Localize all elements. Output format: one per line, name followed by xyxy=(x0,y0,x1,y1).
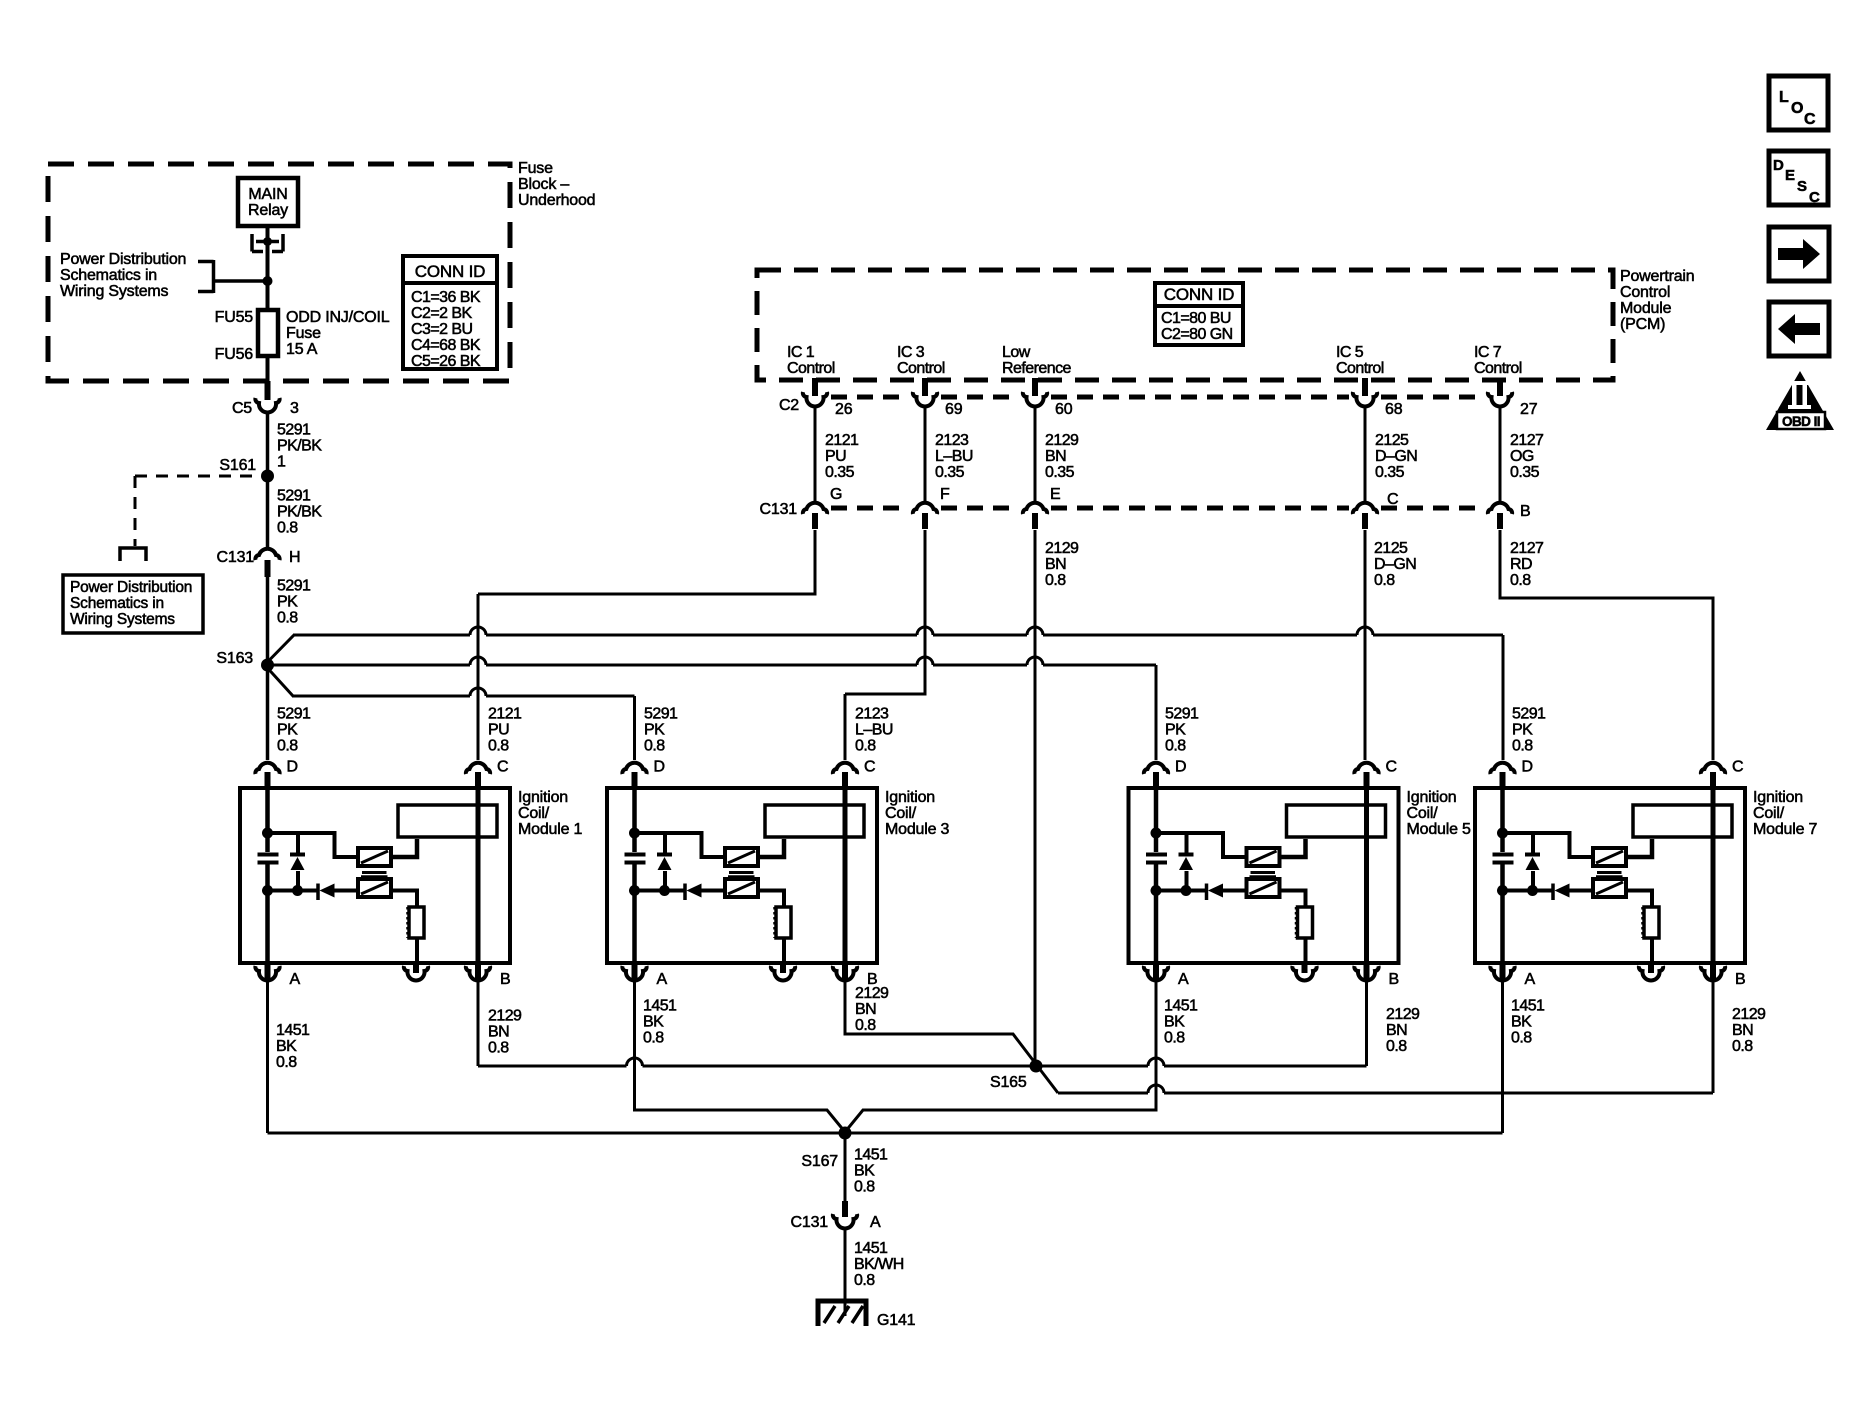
C131 label xyxy=(760,501,798,518)
wire 2129 BN 0.8 from module 3 pin B through S165 xyxy=(845,981,1058,1093)
connector C131 pin H xyxy=(255,549,279,560)
svg-text:CONN ID: CONN ID xyxy=(415,262,485,281)
pin C bar (module 1) xyxy=(475,772,481,788)
pin D connector (module 5) xyxy=(1144,763,1168,774)
OBD II icon xyxy=(1766,371,1834,430)
pin C bar (module 5) xyxy=(1364,772,1370,788)
PCM label line2 xyxy=(1620,284,1670,301)
label 1451 BK 0.8 module 5 A xyxy=(1164,998,1201,1047)
connector C131 pin C xyxy=(1353,503,1377,514)
C2 label xyxy=(779,397,799,414)
svg-text:Control: Control xyxy=(1620,284,1670,301)
connector C2 pin 27 xyxy=(1488,392,1512,406)
connector C131 pin B xyxy=(1488,503,1512,514)
next arrow icon xyxy=(1769,227,1829,281)
svg-text:S163: S163 xyxy=(216,650,253,667)
zener diode (module 5) xyxy=(1179,834,1194,889)
wire S161 to C131 H xyxy=(266,476,270,547)
wire 2129 BN 0.8 from module 1 pin B xyxy=(477,981,480,1066)
svg-text:MAIN: MAIN xyxy=(248,186,287,203)
svg-text:C: C xyxy=(497,759,508,776)
pin E bar xyxy=(1032,513,1038,529)
svg-text:C: C xyxy=(1804,111,1816,128)
pin C letter (module 5) xyxy=(1386,759,1397,776)
ignition coil/module 3 box xyxy=(607,788,877,963)
pin F letter xyxy=(940,486,950,503)
svg-text:Wiring Systems: Wiring Systems xyxy=(60,283,169,300)
svg-text:H: H xyxy=(289,549,300,566)
wire 2125 D-GN 0.8 down to module 5 pin C xyxy=(1364,530,1367,760)
label 2129 BN 0.8 module 5 B xyxy=(1386,1006,1423,1055)
PCM label line1 xyxy=(1620,268,1694,285)
svg-text:A: A xyxy=(290,971,301,988)
primary winding (module 7) xyxy=(1593,848,1626,866)
svg-text:Powertrain: Powertrain xyxy=(1620,268,1694,285)
wire 1451 BK/WH 0.8 to ground xyxy=(844,1228,847,1316)
label 5291 PK/BK 0.8 xyxy=(277,488,325,537)
pin A letter (module 7) xyxy=(1525,971,1536,988)
connector C131 pin F xyxy=(913,503,937,514)
pin C letter (module 7) xyxy=(1732,759,1743,776)
primary winding (module 3) xyxy=(725,848,758,866)
junction dot at zener leg (module 1) xyxy=(292,885,303,896)
PCM label line4 xyxy=(1620,316,1665,333)
pin D letter (module 7) xyxy=(1522,759,1533,776)
pin A bar (module 1) xyxy=(265,963,271,980)
svg-text:C5: C5 xyxy=(232,400,252,417)
connector C2 dashed line xyxy=(831,395,1484,400)
connector C131 pin A xyxy=(833,1214,857,1228)
internal wire pin C to pin B (module 7) xyxy=(1711,788,1716,963)
internal wire primary to driver block (module 7) xyxy=(1626,839,1652,857)
internal wire secondary to resistor (module 3) xyxy=(758,891,784,908)
internal wire from pin D (module 5) xyxy=(1154,788,1159,833)
splice S165 xyxy=(1030,1060,1043,1073)
internal wire lower node to diode (module 7) xyxy=(1503,889,1552,893)
pin C letter (module 3) xyxy=(864,759,875,776)
core bars (module 3) xyxy=(728,873,755,877)
junction dot at capacitor leg (module 3) xyxy=(629,885,640,896)
connector C2 pin 69 xyxy=(913,392,937,406)
connector C2 pin 68 xyxy=(1353,392,1377,406)
pin A connector (module 1) xyxy=(255,966,279,980)
splice S167 xyxy=(839,1127,852,1140)
pin A bar (module 3) xyxy=(632,963,638,980)
FU56 label xyxy=(215,346,254,363)
wire 1451 BK 0.8 from module 1 pin A xyxy=(266,981,269,1133)
CONN ID table (PCM) xyxy=(1155,283,1243,345)
pin C bar (module 3) xyxy=(842,772,848,788)
internal wire pin C to pin B (module 5) xyxy=(1364,788,1369,963)
svg-text:C: C xyxy=(1386,759,1397,776)
label 2121 PU 0.35 xyxy=(825,432,862,481)
junction dot at capacitor leg (module 1) xyxy=(262,885,273,896)
wire 5291 PK 0.8 bottom branch to module 3 D xyxy=(292,688,635,696)
MAIN relay label line2 xyxy=(248,202,288,219)
connector C2 pin 26 xyxy=(803,392,827,406)
pin A bar (module 7) xyxy=(1500,963,1506,980)
label 2125 D&#8211;GN 0.35 xyxy=(1375,432,1421,481)
label 5291 PK 0.8 module 1 D xyxy=(277,706,314,755)
capacitor (module 1) xyxy=(258,855,279,863)
C131 A label xyxy=(791,1214,829,1231)
pin A letter (module 3) xyxy=(657,971,668,988)
pin A connector (module 3) xyxy=(622,966,646,980)
svg-text:C131: C131 xyxy=(760,501,798,518)
module 3 name label xyxy=(885,789,950,838)
pin B connector (module 3) xyxy=(833,966,857,980)
MAIN relay box xyxy=(238,178,298,226)
wire node to capacitor (module 5) xyxy=(1154,833,1159,852)
internal node dot (module 1) xyxy=(262,828,273,839)
pin D bar (module 1) xyxy=(265,772,271,788)
core bars (module 1) xyxy=(361,873,388,877)
svg-text:(PCM): (PCM) xyxy=(1620,316,1665,333)
pin B letter (module 7) xyxy=(1735,971,1745,988)
svg-text:C1=36 BKC2=2 BKC3=2 BUC4=68 BK: C1=36 BKC2=2 BKC3=2 BUC4=68 BKC5=26 BK xyxy=(411,289,481,370)
pin B letter (module 1) xyxy=(500,971,510,988)
svg-text:Module: Module xyxy=(1620,300,1672,317)
pin 26 bar at PCM xyxy=(812,378,818,396)
spark plug pin bar (module 7) xyxy=(1648,963,1654,973)
power distribution note line2 xyxy=(60,267,157,284)
svg-text:Schematics in: Schematics in xyxy=(60,267,157,284)
pin B connector (module 1) xyxy=(466,966,490,980)
label 2127 RD 0.8 xyxy=(1510,540,1547,589)
internal wire lower node to diode (module 5) xyxy=(1156,889,1205,893)
wire 2123 L-BU 0.8 (C131 F toward module 3) xyxy=(845,530,925,694)
junction dot at capacitor leg (module 5) xyxy=(1151,885,1162,896)
wire 5291 PK/BK 1 xyxy=(266,412,270,476)
internal wire primary to driver block (module 3) xyxy=(758,839,784,857)
svg-text:Power Distribution: Power Distribution xyxy=(60,251,186,268)
pin 68 label xyxy=(1385,401,1403,418)
svg-text:E: E xyxy=(1050,486,1060,503)
bracket from power distribution note xyxy=(198,260,267,293)
wire node to capacitor (module 7) xyxy=(1500,833,1505,852)
internal wire from pin D (module 3) xyxy=(632,788,637,833)
wire 5291 PK 0.8 top branch to module 7 D xyxy=(293,627,1503,635)
fuse name line1 xyxy=(286,309,390,326)
svg-text:26: 26 xyxy=(835,401,853,418)
pin H letter xyxy=(289,549,300,566)
svg-text:27: 27 xyxy=(1520,401,1538,418)
S165 label xyxy=(990,1074,1027,1091)
zener diode (module 1) xyxy=(290,834,305,889)
svg-text:60: 60 xyxy=(1055,401,1073,418)
MAIN relay label line1 xyxy=(248,186,287,203)
wire resistor to spark plug pin (module 1) xyxy=(415,938,419,963)
svg-text:B: B xyxy=(500,971,510,988)
PCM label line3 xyxy=(1620,300,1672,317)
pin B bar (module 5) xyxy=(1364,963,1370,980)
spark plug pin bar (module 5) xyxy=(1302,963,1308,973)
svg-text:Relay: Relay xyxy=(248,202,288,219)
secondary winding (module 1) xyxy=(358,879,391,897)
LOC nav icon xyxy=(1769,76,1828,130)
wire capacitor to lower node (module 7) xyxy=(1500,865,1505,891)
wire 1451 BK 0.8 from module 5 pin A to S167 xyxy=(845,981,1156,1132)
wire 2121 PU 0.8 down to module 1 pin C xyxy=(477,594,480,760)
capacitor (module 7) xyxy=(1493,855,1514,863)
internal wire pin C to pin B (module 3) xyxy=(843,788,848,963)
svg-text:C: C xyxy=(1732,759,1743,776)
pin D connector (module 1) xyxy=(255,763,279,774)
internal node dot (module 5) xyxy=(1151,828,1162,839)
wire 2129 BN 0.8 (C131 E down to S165) xyxy=(1034,530,1037,1066)
junction dot at zener leg (module 7) xyxy=(1527,885,1538,896)
pin G bar xyxy=(812,513,818,529)
svg-text:C131: C131 xyxy=(791,1214,829,1231)
internal node dot (module 3) xyxy=(629,828,640,839)
svg-text:S: S xyxy=(1797,178,1807,195)
svg-text:O: O xyxy=(1791,100,1803,117)
wire fuse to block edge xyxy=(266,356,270,381)
svg-text:S161: S161 xyxy=(219,457,256,474)
previous arrow icon xyxy=(1769,302,1829,356)
wire 1451 BK bus through S167 xyxy=(268,1132,1503,1135)
splice S163 xyxy=(261,659,274,672)
pin D bar (module 5) xyxy=(1153,772,1159,788)
svg-text:Underhood: Underhood xyxy=(518,192,595,209)
pin 60 label xyxy=(1055,401,1073,418)
internal wire secondary to resistor (module 7) xyxy=(1626,891,1652,908)
junction dot at zener leg (module 3) xyxy=(659,885,670,896)
label 1451 BK 0.8 module 1 A xyxy=(276,1022,313,1071)
wire 5291 top branch diagonal from S163 xyxy=(268,635,295,662)
fuse block label line3 xyxy=(518,192,595,209)
spark plug terminal (module 3) xyxy=(771,966,795,980)
label 2125 D-GN 0.8 xyxy=(1374,540,1420,589)
wire 2121 PU 0.35 xyxy=(814,406,817,501)
pin 27 label xyxy=(1520,401,1538,418)
wire 1451 BK 0.8 from module 3 pin A to S167 xyxy=(635,981,846,1132)
fuse name line2 xyxy=(286,325,321,342)
connector C5 pin 3 xyxy=(255,398,279,412)
wire resistor to spark plug pin (module 5) xyxy=(1304,938,1308,963)
pin D connector (module 3) xyxy=(622,763,646,774)
pin D letter (module 1) xyxy=(287,759,298,776)
label 1451 BK 0.8 module 3 A xyxy=(643,998,680,1047)
svg-text:68: 68 xyxy=(1385,401,1403,418)
label 2129 BN 0.8 module 3 B xyxy=(855,985,892,1034)
svg-text:Block –: Block – xyxy=(518,176,569,193)
svg-text:B: B xyxy=(1735,971,1745,988)
pin C bar xyxy=(1362,513,1368,529)
pin 69 bar at PCM xyxy=(922,378,928,396)
diode (module 5) xyxy=(1207,884,1247,901)
fuse block underhood dashed box xyxy=(48,164,510,381)
wire 2121 PU 0.8 (C131 G toward module 1) xyxy=(478,530,815,594)
pin 26 label xyxy=(835,401,853,418)
fuse name line3 xyxy=(286,341,318,358)
dashed reference branch from S161 xyxy=(135,476,260,546)
internal wire to pin A (module 1) xyxy=(265,891,270,964)
svg-text:Fuse: Fuse xyxy=(518,160,553,177)
pin E letter xyxy=(1050,486,1060,503)
wire 5291 PK 0.8 down to module 5 pin D xyxy=(1155,665,1158,760)
label 2129 BN 0.8 module 1 B xyxy=(488,1008,525,1057)
wire 5291 PK 0.8 down to module 3 pin D xyxy=(633,696,636,760)
svg-text:C: C xyxy=(1387,491,1398,508)
ignition coil/module 7 box xyxy=(1475,788,1745,963)
wire 2125 D&#8211;GN 0.35 xyxy=(1364,406,1367,501)
svg-text:D: D xyxy=(1175,759,1186,776)
pin 3 label xyxy=(290,400,299,417)
label 5291 PK 0.8 module 5 D xyxy=(1165,706,1202,755)
svg-text:C: C xyxy=(864,759,875,776)
pin C connector (module 5) xyxy=(1354,763,1378,774)
resistor (module 5) xyxy=(1296,907,1313,938)
G141 label xyxy=(877,1312,916,1329)
internal wire to primary winding (module 1) xyxy=(268,833,359,857)
svg-text:OBD II: OBD II xyxy=(1782,414,1820,429)
core bars (module 5) xyxy=(1250,873,1277,877)
wire 5291 PK 0.8 middle branch to module 5 D xyxy=(268,657,1157,665)
C131 H label xyxy=(217,549,255,566)
wire node to capacitor (module 1) xyxy=(265,833,270,852)
relay contact symbol xyxy=(252,234,283,252)
pin D connector (module 7) xyxy=(1490,763,1514,774)
diode (module 3) xyxy=(685,884,725,901)
connector C131 dashed line xyxy=(831,506,1484,511)
label 2127 OG 0.35 xyxy=(1510,432,1547,481)
pin C letter xyxy=(1387,491,1398,508)
IC 7 Control label xyxy=(1474,344,1522,377)
fuse block label line1 xyxy=(518,160,553,177)
svg-text:D: D xyxy=(1773,157,1784,174)
pin 60 bar at PCM xyxy=(1032,378,1038,396)
wire resistor to spark plug pin (module 3) xyxy=(782,938,786,963)
svg-text:D: D xyxy=(287,759,298,776)
junction dot at zener leg (module 5) xyxy=(1181,885,1192,896)
driver block rectangle (module 7) xyxy=(1633,805,1732,837)
wire 2123 L-BU 0.8 down to module 3 pin C xyxy=(844,694,847,760)
pin A letter at C131 xyxy=(870,1214,881,1231)
internal node dot (module 7) xyxy=(1497,828,1508,839)
FU55 label xyxy=(215,309,254,326)
module 1 name label xyxy=(518,789,583,838)
svg-text:FU55: FU55 xyxy=(215,309,254,326)
pin A bar at C131 bottom xyxy=(842,1201,848,1217)
pin G letter xyxy=(830,486,842,503)
pin 27 bar at PCM xyxy=(1497,378,1503,396)
wire capacitor to lower node (module 1) xyxy=(265,865,270,891)
internal wire lower node to diode (module 1) xyxy=(268,889,317,893)
secondary winding (module 5) xyxy=(1247,879,1280,897)
pin B bar (module 3) xyxy=(842,963,848,980)
label 1451 BK 0.8 module 7 A xyxy=(1511,998,1548,1047)
connector C2 pin 60 xyxy=(1023,392,1047,406)
capacitor (module 5) xyxy=(1146,855,1167,863)
secondary winding (module 3) xyxy=(725,879,758,897)
S167 label xyxy=(801,1153,838,1170)
capacitor (module 3) xyxy=(625,855,646,863)
wire 2123 L&#8211;BU 0.35 xyxy=(924,406,927,501)
wire 1451 BK 0.8 from module 7 pin A xyxy=(1501,981,1504,1133)
connector C131 pin G xyxy=(803,503,827,514)
wire capacitor to lower node (module 5) xyxy=(1154,865,1159,891)
DESC nav icon xyxy=(1769,151,1828,206)
pin C bar (module 7) xyxy=(1710,772,1716,788)
internal wire secondary to resistor (module 1) xyxy=(391,891,417,908)
wire node to capacitor (module 3) xyxy=(632,833,637,852)
svg-text:G141: G141 xyxy=(877,1312,916,1329)
resistor (module 1) xyxy=(408,907,425,938)
ignition coil/module 1 box xyxy=(240,788,510,963)
bracket to power distribution box xyxy=(120,548,146,561)
svg-text:B: B xyxy=(1389,971,1399,988)
wire 2129 BN 0.35 xyxy=(1034,406,1037,501)
internal wire to primary winding (module 3) xyxy=(635,833,726,857)
pin B bar xyxy=(1497,513,1503,529)
spark plug terminal (module 7) xyxy=(1639,966,1663,980)
pin B letter (module 5) xyxy=(1389,971,1399,988)
svg-text:C1=80 BUC2=80 GN: C1=80 BUC2=80 GN xyxy=(1161,310,1233,343)
pin D letter (module 3) xyxy=(654,759,665,776)
svg-text:ODD INJ/COIL: ODD INJ/COIL xyxy=(286,309,390,326)
diode (module 1) xyxy=(318,884,358,901)
internal wire primary to driver block (module 5) xyxy=(1280,839,1306,857)
pin 69 label xyxy=(945,401,963,418)
splice S161 xyxy=(261,470,274,483)
label 2129 BN 0.8 upper xyxy=(1045,540,1082,589)
pin B connector (module 5) xyxy=(1354,966,1378,980)
svg-text:C131: C131 xyxy=(217,549,255,566)
resistor (module 3) xyxy=(775,907,792,938)
secondary winding (module 7) xyxy=(1593,879,1626,897)
svg-text:CONN ID: CONN ID xyxy=(1164,285,1234,304)
internal wire to pin A (module 5) xyxy=(1154,891,1159,964)
pin A connector (module 7) xyxy=(1490,966,1514,980)
label 2123 L&#8211;BU 0.35 xyxy=(935,432,977,481)
power distribution note line3 xyxy=(60,283,169,300)
IC 3 Control label xyxy=(897,344,945,377)
pin D bar (module 7) xyxy=(1500,772,1506,788)
svg-text:A: A xyxy=(870,1214,881,1231)
pin C letter (module 1) xyxy=(497,759,508,776)
IC 1 Control label xyxy=(787,344,835,377)
S161 label xyxy=(219,457,256,474)
label 2123 L-BU 0.8 xyxy=(855,706,897,755)
spark plug terminal (module 1) xyxy=(404,966,428,980)
pin B letter (module 3) xyxy=(867,971,877,988)
zener diode (module 7) xyxy=(1525,834,1540,889)
wire C131 H through S163 to module 1 pin D xyxy=(266,577,270,760)
junction at relay feed xyxy=(263,276,273,286)
pin D letter (module 5) xyxy=(1175,759,1186,776)
module 5 name label xyxy=(1407,789,1472,838)
label 2121 PU 0.8 xyxy=(488,706,525,755)
power distribution schematics box xyxy=(63,575,203,633)
wire relay to fuse xyxy=(266,226,270,310)
svg-text:E: E xyxy=(1785,167,1795,184)
label 5291 PK 0.8 module 3 D xyxy=(644,706,681,755)
pin 68 bar at PCM xyxy=(1362,378,1368,396)
svg-text:S167: S167 xyxy=(801,1153,838,1170)
primary winding (module 1) xyxy=(358,848,391,866)
pin C connector (module 7) xyxy=(1701,763,1725,774)
core bars (module 7) xyxy=(1596,873,1623,877)
powertrain control module dashed box xyxy=(757,270,1613,380)
svg-text:15 A: 15 A xyxy=(286,341,318,358)
svg-text:D: D xyxy=(1522,759,1533,776)
Low Reference label xyxy=(1002,344,1072,377)
internal wire primary to driver block (module 1) xyxy=(391,839,417,857)
wire 2129 BN bus through S165 xyxy=(478,1058,1367,1066)
power distribution note line1 xyxy=(60,251,186,268)
internal wire pin C to pin B (module 1) xyxy=(476,788,481,963)
